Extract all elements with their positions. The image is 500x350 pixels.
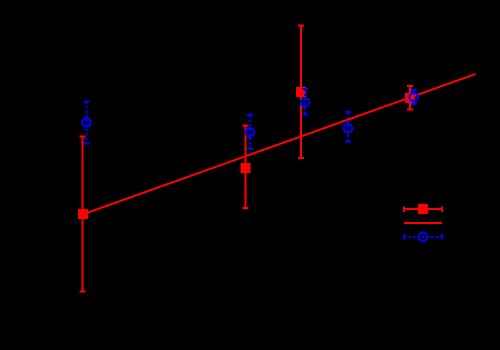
blue error bar 1 xyxy=(84,102,90,144)
blue error bar 5 xyxy=(411,90,417,104)
blue circle point 5 xyxy=(409,93,418,102)
blue circle point 1 xyxy=(82,118,91,127)
blue circle point 2 xyxy=(246,128,255,137)
legend entry 2: red line sample xyxy=(404,222,442,224)
blue circle point 4 xyxy=(344,124,353,133)
legend entry 1 square xyxy=(418,204,428,214)
red square point 3 xyxy=(296,87,306,97)
red square point 2 xyxy=(241,163,251,173)
red error bar 2 xyxy=(243,126,249,208)
blue error bar 2 xyxy=(247,115,253,149)
blue error bar 3 xyxy=(302,89,308,115)
red error bar 3 xyxy=(298,26,304,159)
red fit line xyxy=(83,74,476,214)
red square point 4 xyxy=(405,93,415,103)
legend entry 3: blue dashed errorbar sample xyxy=(404,234,442,240)
legend entry 3 circle xyxy=(419,233,428,242)
red error bar 4 xyxy=(407,86,413,109)
red error bar 1 xyxy=(80,137,86,292)
legend entry 1: red errorbar sample xyxy=(404,206,442,212)
blue circle point 3 xyxy=(301,98,310,107)
red square point 1 xyxy=(78,209,88,219)
blue error bar 4 xyxy=(345,112,351,142)
